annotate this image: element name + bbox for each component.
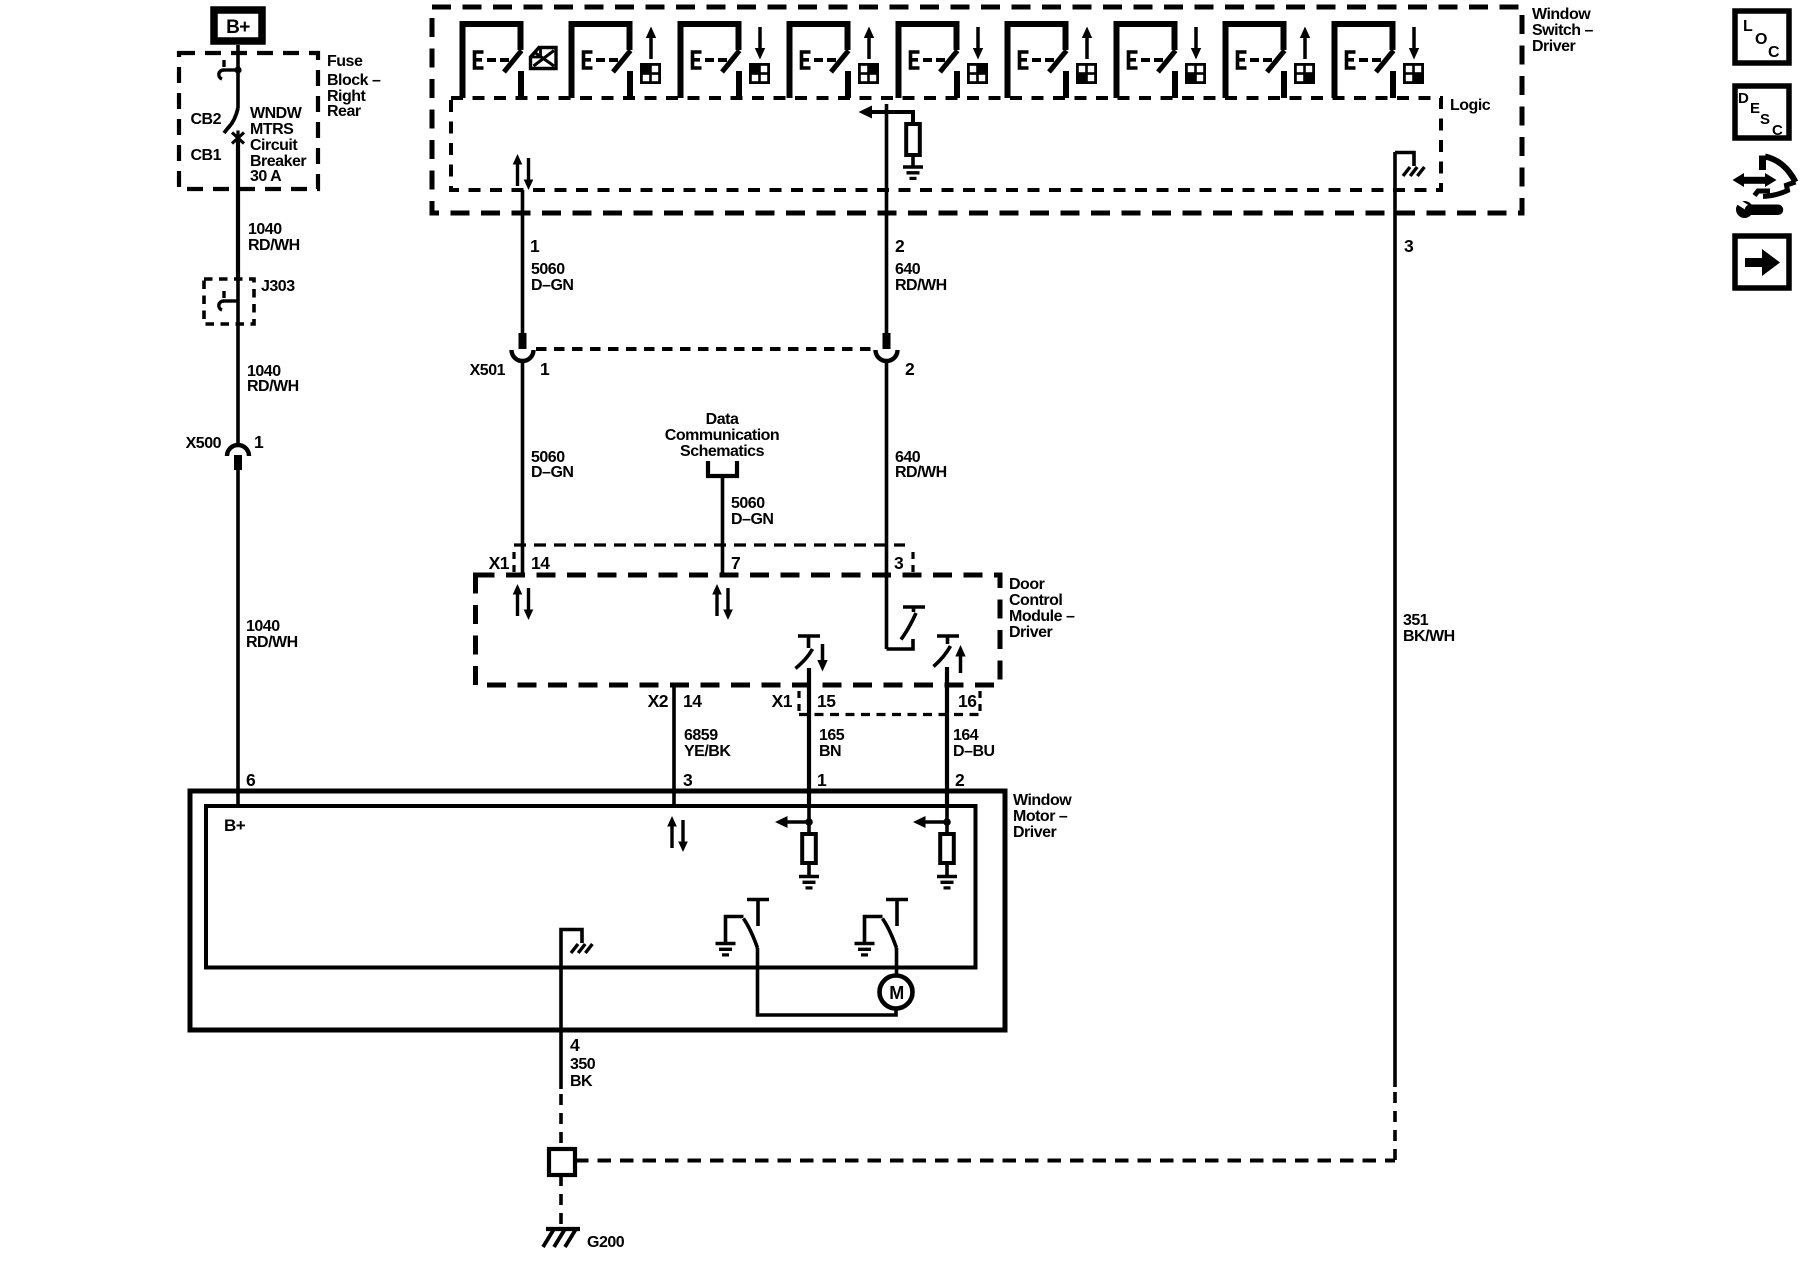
wire inside fuse block (top) bbox=[236, 53, 240, 108]
wire label 6859 YE/BK bbox=[684, 727, 731, 760]
logic pull resistor bbox=[906, 124, 920, 155]
splice J303 box bbox=[204, 279, 254, 324]
svg-text:1: 1 bbox=[254, 432, 264, 452]
circuit breaker CB2/CB1 bbox=[224, 108, 244, 145]
svg-text:Switch –: Switch – bbox=[1532, 22, 1594, 39]
wire label 350 BK bbox=[570, 1056, 596, 1090]
wire S1 to motor (lower loop) bbox=[758, 948, 897, 1015]
off-page bracket bbox=[708, 461, 737, 476]
svg-text:15: 15 bbox=[817, 691, 836, 711]
svg-text:Driver: Driver bbox=[1013, 824, 1057, 841]
module pin 15 down arrow bbox=[817, 644, 827, 672]
svg-text:640: 640 bbox=[895, 261, 921, 278]
wire through J303 bbox=[236, 278, 240, 330]
wire label 165 BN bbox=[819, 727, 845, 760]
svg-text:D–GN: D–GN bbox=[531, 464, 573, 481]
motor pin 1 resistor ground wire bbox=[807, 863, 811, 876]
data communication schematics label bbox=[665, 411, 779, 460]
X1 left tick bbox=[512, 552, 515, 576]
svg-text:YE/BK: YE/BK bbox=[684, 743, 731, 760]
svg-text:RD/WH: RD/WH bbox=[895, 464, 947, 481]
motor pin 2 resistor ground wire bbox=[945, 863, 949, 876]
svg-text:1040: 1040 bbox=[248, 221, 282, 238]
logic ground bbox=[903, 167, 923, 178]
module pin 7 up/down arrows bbox=[712, 584, 733, 620]
resistor to ground wire bbox=[911, 155, 915, 167]
breaker value label bbox=[250, 105, 306, 185]
svg-text:RD/WH: RD/WH bbox=[248, 237, 300, 254]
wire J303 to X500, circuit 1040 RD/WH bbox=[236, 330, 240, 445]
dashed wire to splice node bbox=[559, 1094, 563, 1149]
svg-text:D–GN: D–GN bbox=[531, 277, 573, 294]
svg-text:164: 164 bbox=[953, 727, 979, 744]
svg-text:L: L bbox=[1743, 18, 1753, 35]
svg-text:RD/WH: RD/WH bbox=[895, 277, 947, 294]
svg-text:Driver: Driver bbox=[1532, 38, 1576, 55]
svg-text:1: 1 bbox=[540, 359, 550, 379]
svg-text:Logic: Logic bbox=[1450, 97, 1491, 114]
svg-text:B+: B+ bbox=[224, 816, 246, 835]
svg-text:CB2: CB2 bbox=[190, 111, 221, 128]
window switch cell 8 bbox=[1226, 24, 1285, 98]
dashed wire node to 351 BK/WH bbox=[575, 1159, 1395, 1163]
window down arrow cell 5 bbox=[973, 27, 983, 60]
wire fuse block to J303, circuit 1040 RD/WH bbox=[236, 141, 240, 278]
motor switch S1 ground bbox=[716, 944, 736, 955]
svg-text:X1: X1 bbox=[489, 553, 510, 573]
svg-text:30 A: 30 A bbox=[250, 168, 282, 185]
module pin 14 up/down arrows bbox=[513, 584, 534, 620]
connector X1 dashed line bbox=[514, 543, 905, 546]
window switch cell 9 bbox=[1335, 24, 1394, 98]
svg-text:Module –: Module – bbox=[1009, 608, 1075, 625]
ground hook inside motor box (350 BK) bbox=[561, 930, 592, 969]
wire B+ to fuse block bbox=[236, 45, 240, 54]
motor pin 1 ground bbox=[799, 877, 819, 888]
wire X501-1 to door module X1-14, circuit 5060 D-GN bbox=[521, 360, 525, 575]
window pane icon cell 2 bbox=[640, 63, 661, 84]
ground G200 bbox=[543, 1229, 580, 1247]
window switch cell 7 bbox=[1117, 24, 1176, 98]
svg-text:C: C bbox=[1772, 122, 1783, 139]
motor pin 1 resistor bbox=[802, 834, 816, 863]
svg-text:MTRS: MTRS bbox=[250, 121, 294, 138]
window pane icon cell 5 bbox=[967, 63, 988, 84]
splice curl in J303 bbox=[219, 291, 238, 310]
motor pin 2 resistor bbox=[940, 834, 954, 863]
window pane icon cell 9 bbox=[1403, 63, 1424, 84]
motor switch S2 bbox=[865, 900, 909, 949]
svg-text:Block –: Block – bbox=[327, 72, 381, 89]
window motor label bbox=[1013, 792, 1072, 841]
svg-text:2: 2 bbox=[955, 770, 965, 790]
svg-text:G200: G200 bbox=[587, 1234, 625, 1251]
dashed wire riser to 351 BK/WH bbox=[1393, 1090, 1397, 1160]
wire X501-2 into door module, circuit 640 RD/WH bbox=[885, 360, 889, 649]
svg-text:RD/WH: RD/WH bbox=[247, 378, 299, 395]
svg-text:E: E bbox=[1750, 100, 1760, 117]
svg-text:2: 2 bbox=[905, 359, 915, 379]
window up arrow cell 6 bbox=[1082, 27, 1092, 60]
svg-text:RD/WH: RD/WH bbox=[246, 634, 298, 651]
module pin 16 switch bbox=[934, 636, 960, 667]
window down arrow cell 9 bbox=[1409, 27, 1419, 60]
svg-text:5060: 5060 bbox=[731, 495, 765, 512]
wire module pin X2-14 down bbox=[672, 685, 676, 806]
svg-text:Schematics: Schematics bbox=[680, 443, 765, 460]
svg-text:WNDW: WNDW bbox=[250, 105, 303, 122]
svg-text:6: 6 bbox=[246, 770, 256, 790]
logic pin 1 up/down arrows bbox=[513, 154, 534, 190]
svg-text:Window: Window bbox=[1532, 6, 1591, 23]
logic box bbox=[451, 98, 1441, 190]
LOC icon box bbox=[1735, 11, 1789, 63]
motor switch S1 bbox=[726, 900, 770, 949]
svg-text:3: 3 bbox=[683, 770, 693, 790]
window switch cell 5 bbox=[899, 24, 958, 98]
motor pin 3 up/down arrows bbox=[667, 816, 688, 852]
window pane icon cell 6 bbox=[1076, 63, 1097, 84]
wire data comm to door module X1-7, circuit 5060 D-GN bbox=[721, 476, 725, 575]
svg-text:4: 4 bbox=[570, 1035, 580, 1055]
wire module pin 16 down bbox=[945, 667, 949, 806]
module pin 15 switch bbox=[796, 636, 821, 669]
wire label 1040 RD/WH bbox=[247, 363, 299, 395]
window switch driver label bbox=[1532, 6, 1594, 55]
svg-text:M: M bbox=[889, 983, 904, 1003]
wire label 164 D-BU bbox=[953, 727, 995, 760]
svg-text:O: O bbox=[1755, 31, 1767, 48]
battery feed B+ box bbox=[214, 10, 262, 41]
svg-text:Control: Control bbox=[1009, 592, 1062, 609]
window motor inner box bbox=[206, 806, 976, 968]
pin connector box X1 15/16 bbox=[799, 691, 980, 715]
next-page arrow icon box bbox=[1735, 236, 1789, 288]
svg-text:Driver: Driver bbox=[1009, 624, 1053, 641]
DESC icon box bbox=[1735, 86, 1789, 139]
window up arrow cell 4 bbox=[864, 27, 874, 60]
svg-text:Fuse: Fuse bbox=[327, 53, 363, 70]
wire X500 to window motor, circuit 1040 RD/WH bbox=[236, 470, 240, 806]
svg-text:D–BU: D–BU bbox=[953, 743, 995, 760]
wire label 5060 D-GN bbox=[531, 449, 573, 481]
svg-text:J303: J303 bbox=[261, 278, 295, 295]
svg-text:Door: Door bbox=[1009, 576, 1045, 593]
svg-text:BN: BN bbox=[819, 743, 841, 760]
svg-text:2: 2 bbox=[895, 236, 905, 256]
svg-text:Data: Data bbox=[706, 411, 739, 428]
svg-text:Communication: Communication bbox=[665, 427, 779, 444]
svg-text:B+: B+ bbox=[226, 17, 250, 38]
fuse block label bbox=[327, 53, 381, 120]
svg-text:CB1: CB1 bbox=[190, 147, 221, 164]
window up arrow cell 8 bbox=[1300, 27, 1310, 60]
wire S2 to motor bbox=[895, 948, 899, 976]
motor pin 1 wire to resistor bbox=[807, 806, 811, 834]
window pane icon cell 8 bbox=[1294, 63, 1315, 84]
svg-text:X2: X2 bbox=[648, 691, 669, 711]
svg-text:6859: 6859 bbox=[684, 727, 718, 744]
svg-text:D: D bbox=[1738, 90, 1749, 107]
svg-text:X501: X501 bbox=[470, 362, 506, 379]
svg-text:14: 14 bbox=[531, 553, 550, 573]
window down arrow cell 7 bbox=[1191, 27, 1201, 60]
X501 terminal pin 2 bbox=[876, 333, 898, 361]
wire label 1040 RD/WH bbox=[248, 221, 300, 254]
window up arrow cell 2 bbox=[646, 27, 656, 60]
svg-text:7: 7 bbox=[731, 553, 740, 573]
window pane icon cell 7 bbox=[1185, 63, 1206, 84]
harness repair icon bbox=[1733, 156, 1796, 219]
express-down window icon cell 1 bbox=[531, 48, 557, 69]
window motor outer box bbox=[190, 791, 1005, 1030]
motor pin 2 ground bbox=[937, 877, 957, 888]
svg-text:3: 3 bbox=[894, 553, 904, 573]
svg-text:5060: 5060 bbox=[531, 261, 565, 278]
window switch driver outer box bbox=[432, 7, 1522, 213]
wire label 351 BK/WH bbox=[1403, 612, 1455, 645]
door control module box bbox=[476, 575, 1001, 685]
motor M bbox=[880, 976, 913, 1009]
svg-text:BK: BK bbox=[570, 1073, 593, 1090]
motor pin 1 left arrow bbox=[775, 816, 813, 828]
door control module label bbox=[1009, 576, 1075, 641]
window switch cell 2 bbox=[572, 24, 631, 98]
window pane icon cell 3 bbox=[749, 63, 770, 84]
logic pin 3 hatch termination bbox=[1395, 153, 1424, 177]
connector X501 dashed line bbox=[536, 347, 872, 351]
svg-text:Circuit: Circuit bbox=[250, 137, 298, 154]
wire label 5060 D-GN bbox=[731, 495, 773, 528]
fuse block box bbox=[179, 53, 318, 189]
svg-text:X500: X500 bbox=[186, 435, 222, 452]
window switch cell 3 bbox=[681, 24, 740, 98]
dashed wire node to G200 bbox=[559, 1175, 563, 1227]
window switch cell 4 bbox=[790, 24, 849, 98]
window switch cell 6 bbox=[1008, 24, 1067, 98]
svg-text:1: 1 bbox=[530, 236, 540, 256]
wire label 1040 RD/WH bbox=[246, 618, 298, 651]
motor pin 2 left arrow bbox=[913, 816, 951, 828]
svg-text:165: 165 bbox=[819, 727, 845, 744]
svg-text:C: C bbox=[1768, 44, 1780, 61]
wire pin1 to X501, circuit 5060 D-GN bbox=[521, 190, 525, 333]
svg-text:S: S bbox=[1760, 111, 1770, 128]
window down arrow cell 3 bbox=[755, 27, 765, 60]
wire label 640 RD/WH bbox=[895, 449, 947, 481]
module pin 16 up arrow bbox=[955, 645, 965, 673]
wire module pin 15 down bbox=[807, 668, 811, 806]
X501 terminal pin 1 bbox=[512, 333, 534, 361]
svg-text:1040: 1040 bbox=[246, 618, 280, 635]
window switch cell 1 bbox=[463, 24, 522, 98]
svg-text:14: 14 bbox=[683, 691, 702, 711]
svg-text:X1: X1 bbox=[772, 691, 793, 711]
svg-text:351: 351 bbox=[1403, 612, 1429, 629]
motor pin 2 wire to resistor bbox=[945, 806, 949, 834]
svg-text:D–GN: D–GN bbox=[731, 511, 773, 528]
svg-text:Motor –: Motor – bbox=[1013, 808, 1068, 825]
wire motor pin 4 down, circuit 350 BK bbox=[559, 968, 563, 1089]
svg-text:3: 3 bbox=[1404, 236, 1414, 256]
motor switch S2 ground bbox=[855, 944, 875, 955]
splice curl in fuse block bbox=[219, 60, 242, 79]
svg-text:350: 350 bbox=[570, 1056, 596, 1073]
connector X500 pin 1 bbox=[227, 445, 249, 470]
X1 right tick bbox=[911, 552, 914, 576]
svg-text:1: 1 bbox=[817, 770, 827, 790]
module pin 3 switch bbox=[887, 607, 926, 649]
svg-text:Window: Window bbox=[1013, 792, 1072, 809]
svg-text:BK/WH: BK/WH bbox=[1403, 628, 1455, 645]
svg-text:Rear: Rear bbox=[327, 103, 361, 120]
wire label 640 RD/WH bbox=[895, 261, 947, 294]
wire logic pin 3 down (351 BK/WH) bbox=[1393, 152, 1397, 1087]
window pane icon cell 4 bbox=[858, 63, 879, 84]
wire pin2 to X501, circuit 640 RD/WH bbox=[885, 190, 889, 333]
ground splice node box bbox=[549, 1149, 575, 1175]
svg-text:16: 16 bbox=[958, 691, 977, 711]
wire label 5060 D-GN bbox=[531, 261, 573, 294]
logic pin 2 internal wire with left arrow bbox=[859, 104, 914, 190]
